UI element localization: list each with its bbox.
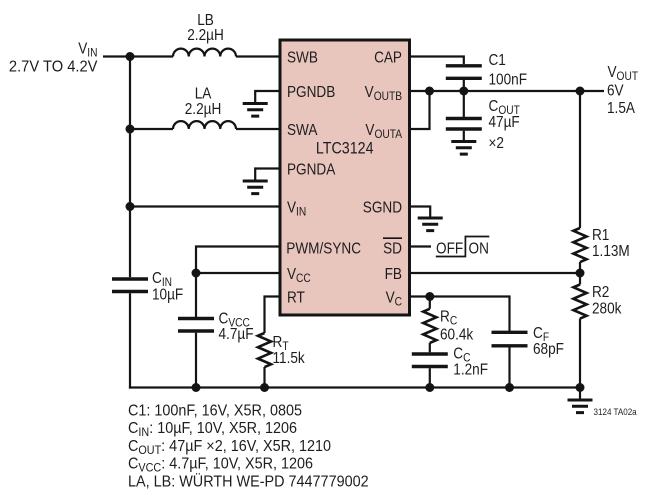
wire PGNDA pin to ground <box>255 169 280 182</box>
svg-text:RT: RT <box>287 289 305 306</box>
wire VOUTA pin up to VOUTB net <box>410 91 430 129</box>
svg-text:2.7V TO 4.2V: 2.7V TO 4.2V <box>9 58 98 76</box>
junction dot bottom right <box>576 383 585 392</box>
wire RT pin down <box>265 297 281 334</box>
wire SD pin <box>410 245 432 247</box>
svg-text:VOUT: VOUT <box>608 64 639 83</box>
ground at COUT <box>451 142 476 155</box>
capacitor CVCC <box>178 319 214 332</box>
svg-text:FB: FB <box>385 266 402 283</box>
svg-text:47µF: 47µF <box>489 114 520 131</box>
wire stub to bottom ground <box>579 388 581 401</box>
junction dot VCC node <box>192 269 201 278</box>
wire VIN rail lower segment below CIN <box>129 293 131 388</box>
wire CVCC to ground rail <box>195 333 197 388</box>
svg-text:3124 TA02a: 3124 TA02a <box>594 407 637 418</box>
ground at SGND <box>418 218 443 231</box>
wire LA to SWA pin <box>236 128 280 130</box>
svg-text:1.5A: 1.5A <box>607 100 635 117</box>
ground at PGNDA <box>243 181 268 194</box>
svg-text:6V: 6V <box>607 82 624 99</box>
wire FB node to R2 <box>579 273 581 285</box>
svg-text:10µF: 10µF <box>152 287 183 304</box>
wire VCC node down to CVCC <box>195 273 197 317</box>
svg-text:OFF: OFF <box>436 240 463 257</box>
svg-text:2.2µH: 2.2µH <box>187 27 224 44</box>
wire CAP pin to C1 <box>410 57 464 65</box>
wire VC pin to compensation <box>410 297 510 332</box>
wire PWM/SYNC pin to VCC node <box>196 247 280 274</box>
svg-text:SGND: SGND <box>363 199 402 216</box>
junction dot VIN at LB <box>126 52 135 61</box>
pin label SD overline <box>383 237 402 239</box>
wire VIN input to SWB with inductor LB <box>103 55 173 57</box>
svg-text:280k: 280k <box>592 301 622 318</box>
junction dot CF at rail <box>505 383 514 392</box>
wire PGNDB pin to ground <box>255 91 280 104</box>
wire R1 to FB node <box>579 262 581 273</box>
svg-text:PGNDB: PGNDB <box>287 84 335 101</box>
ground at bottom right <box>568 400 593 413</box>
svg-text:SD: SD <box>383 241 402 258</box>
wire CF to ground rail <box>508 348 510 388</box>
wire VOUT down to R1 <box>579 91 581 228</box>
wire VCC pin <box>196 272 280 274</box>
svg-text:R2: R2 <box>592 284 609 301</box>
junction dot RT at rail <box>260 383 269 392</box>
svg-text:100nF: 100nF <box>489 72 528 89</box>
junction dot CC at rail <box>425 383 434 392</box>
wire RT resistor to ground rail <box>263 367 265 388</box>
capacitor C1 <box>446 66 482 79</box>
wire VIN vertical rail upper segment <box>129 57 131 278</box>
resistor RT <box>258 333 271 367</box>
wire SGND pin to ground <box>410 207 431 219</box>
capacitor CIN <box>112 279 148 292</box>
inductor LB <box>173 49 236 57</box>
svg-text:ON: ON <box>469 240 489 257</box>
wire C1 bottom to VOUTB net <box>463 80 465 91</box>
wire CC to ground rail <box>429 368 431 387</box>
svg-text:C1: C1 <box>489 52 506 69</box>
svg-text:4.7µF: 4.7µF <box>219 326 254 343</box>
svg-text:60.4k: 60.4k <box>440 327 474 344</box>
junction dot VOUTA join <box>425 87 434 96</box>
junction dot VC at RC <box>425 292 434 301</box>
svg-text:2.2µH: 2.2µH <box>185 101 222 118</box>
svg-text:LTC3124: LTC3124 <box>316 139 374 157</box>
svg-text:SWA: SWA <box>287 122 318 139</box>
svg-text:×2: ×2 <box>489 135 504 152</box>
resistor R1 <box>573 228 586 262</box>
junction dot C1/COUT join <box>459 87 468 96</box>
switch OFF/ON toggle lines <box>436 237 490 257</box>
svg-text:SWB: SWB <box>287 49 318 66</box>
junction dot VIN at VIN pin <box>126 202 135 211</box>
resistor RC <box>423 309 436 343</box>
svg-text:C1: 100nF, 16V, X5R, 0805: C1: 100nF, 16V, X5R, 0805 <box>128 402 302 420</box>
wire COUT to ground <box>463 131 465 142</box>
inductor LA <box>173 121 236 129</box>
wire VC node down to RC <box>429 297 431 309</box>
wire VIN pin <box>130 205 280 207</box>
svg-text:1.2nF: 1.2nF <box>453 362 488 379</box>
wire R2 to ground rail <box>579 319 581 388</box>
wire VIN rail to SWA with inductor LA <box>130 128 173 130</box>
svg-text:LA, LB: WÜRTH WE-PD 7447779002: LA, LB: WÜRTH WE-PD 7447779002 <box>128 472 369 491</box>
svg-text:68pF: 68pF <box>533 341 564 358</box>
junction dot VIN at LA <box>126 125 135 134</box>
wire FB pin to divider <box>410 272 581 274</box>
svg-text:11.5k: 11.5k <box>273 350 306 367</box>
resistor R2 <box>573 285 586 319</box>
wire RC to CC <box>429 343 431 353</box>
wire VOUTB net down to COUT <box>463 91 465 117</box>
svg-text:PWM/SYNC: PWM/SYNC <box>286 241 361 258</box>
wire LB to SWB pin <box>236 55 280 57</box>
wire bottom ground rail <box>129 386 580 388</box>
svg-text:PGNDA: PGNDA <box>287 161 335 178</box>
junction dot FB node <box>576 269 585 278</box>
junction dot CVCC at rail <box>192 383 201 392</box>
IC U1 LTC3124 body <box>280 40 410 315</box>
svg-text:RC: RC <box>440 309 457 328</box>
ground at PGNDB <box>243 104 268 117</box>
svg-text:1.13M: 1.13M <box>592 243 630 260</box>
capacitor CF <box>492 332 528 346</box>
svg-text:CAP: CAP <box>374 49 402 66</box>
junction dot VOUT divider tap <box>576 87 585 96</box>
wire VOUTB to VOUT <box>410 90 605 92</box>
svg-text:R1: R1 <box>592 227 609 244</box>
capacitor CC <box>412 354 448 367</box>
capacitor COUT <box>446 119 482 130</box>
